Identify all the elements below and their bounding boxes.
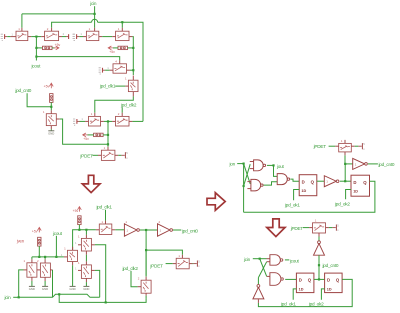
svg-text:D: D xyxy=(353,180,356,185)
wire K2 out to label xyxy=(173,229,181,231)
wire M4 bottom down xyxy=(344,152,346,156)
wire K6 input stub xyxy=(257,299,259,303)
svg-text:jpd_ok2: jpd_ok2 xyxy=(334,202,350,207)
svg-text:jcin: jcin xyxy=(4,295,12,300)
wire jon to node E xyxy=(237,163,243,165)
node H junction xyxy=(259,258,261,260)
svg-text:jout: jout xyxy=(276,164,285,169)
switch cell G4 xyxy=(116,31,129,40)
wire node C left to G8 xyxy=(60,119,108,144)
wire M4 to supply xyxy=(351,145,354,147)
wire junction to K2 xyxy=(146,229,157,231)
svg-text:+5v: +5v xyxy=(73,209,79,213)
node second-net/G4 junction xyxy=(121,21,123,23)
node F junction xyxy=(243,185,245,187)
nand gate N2 xyxy=(251,179,261,191)
node D junction xyxy=(50,106,52,108)
nand gate Q2 xyxy=(270,273,281,286)
wire node B down xyxy=(107,121,109,146)
wire FF2 clk to jpd_ok2 xyxy=(346,190,351,200)
pin stub H6 left xyxy=(78,269,81,271)
node right jumper junction xyxy=(132,47,134,49)
inverter K4 xyxy=(353,158,365,169)
node B junction xyxy=(107,120,109,122)
switch cell G1 xyxy=(16,31,28,40)
wire to K4 xyxy=(345,163,353,165)
svg-text:+5v: +5v xyxy=(109,50,115,54)
switch cell G9 (PDET cell) xyxy=(101,150,115,160)
wire K1 node down to PDET cell xyxy=(145,230,147,276)
wire J4 to node D xyxy=(50,102,52,110)
node A junction xyxy=(35,36,37,38)
crossover wire feedback to Q1 xyxy=(258,262,266,278)
wire jpd_clk1 to G5v xyxy=(115,85,125,87)
wire K4 out to label xyxy=(368,163,378,165)
wire B lower jcin net xyxy=(59,294,146,302)
inverter K6 (up) xyxy=(253,287,264,299)
switch cell H7 xyxy=(141,280,151,293)
svg-text:jpd_cnt0: jpd_cnt0 xyxy=(14,88,31,93)
supply arrow +5v left xyxy=(83,133,89,137)
wire FF3 Q to node I xyxy=(314,278,325,280)
wire G4 top pin xyxy=(121,22,123,28)
supply +5V flag xyxy=(121,154,124,156)
wire H3 bottom to ground xyxy=(31,277,33,281)
feedback rail left xyxy=(243,164,245,213)
wire X1 to G1 xyxy=(7,36,10,38)
pin stub Q2 in1 xyxy=(267,275,270,277)
wire H8 to supply xyxy=(189,263,192,265)
svg-text:jPDET: jPDET xyxy=(313,144,327,149)
flip-flop FF3 xyxy=(296,273,314,293)
supply +5V flag xyxy=(358,145,361,147)
wire H1 out to inverter K1 xyxy=(112,229,115,231)
ground GND5 xyxy=(42,285,48,287)
svg-text:+5v: +5v xyxy=(55,43,61,47)
pin stub H2 left xyxy=(78,244,81,246)
ground GND2 xyxy=(70,285,76,287)
ground GND4 xyxy=(29,285,35,287)
svg-text:GND: GND xyxy=(83,287,89,291)
svg-text:jcout: jcout xyxy=(31,63,42,68)
supply arrow +5v right xyxy=(52,47,55,49)
pin stub H5 in xyxy=(64,256,68,258)
wire G7 out to right rail xyxy=(129,120,132,122)
node I junction xyxy=(318,278,320,280)
node H7 down-rail junction xyxy=(105,301,107,303)
block arrow step3-to-step4 (down) xyxy=(267,219,285,237)
pin stub Q1 in2 xyxy=(267,261,270,263)
node rail/J5 junction xyxy=(78,229,80,231)
BL junction row wire xyxy=(32,256,64,258)
jumper J3 xyxy=(94,133,104,136)
wire K5 in from cnt0 node xyxy=(318,255,320,279)
pin stub G6 top xyxy=(94,113,96,117)
wire hop over jcin xyxy=(92,19,98,22)
wire jPDET to H8 xyxy=(166,263,173,265)
svg-text:jven: jven xyxy=(16,238,25,243)
port X5 xyxy=(76,119,78,124)
wire H2 right to down rail xyxy=(91,244,95,246)
inverter K1 xyxy=(124,224,136,236)
node row/jcout xyxy=(55,256,57,258)
wire A bottom jcin net xyxy=(19,294,100,297)
node C junction xyxy=(107,143,109,145)
wire port X3 to G3 xyxy=(79,36,83,38)
pin stub G1 top xyxy=(21,28,23,31)
wire J3 to node xyxy=(103,134,108,136)
svg-text:1D: 1D xyxy=(301,189,306,193)
wire node A down (jcout net) xyxy=(35,37,37,61)
node row/J6 xyxy=(38,256,40,258)
inverter K3 xyxy=(324,176,336,187)
wire top net to G1 xyxy=(22,13,95,15)
supply +5V flag xyxy=(332,227,335,229)
wire N2 out to N3 xyxy=(264,182,278,185)
pull-up jumper J4 xyxy=(50,94,53,103)
svg-text:GND: GND xyxy=(29,287,35,291)
wire jcin to H3 left pin xyxy=(13,296,19,298)
node jcout/wire3 junction xyxy=(35,56,37,58)
wire to jumper J1 xyxy=(36,47,42,49)
wire jPDET to M4 xyxy=(329,145,336,147)
nand gate N3 xyxy=(277,174,287,185)
wire G5v bottom to G6 top xyxy=(132,92,134,97)
node K4 in junction xyxy=(344,163,346,165)
switch cell G2 xyxy=(45,31,59,40)
svg-text:1D: 1D xyxy=(353,189,358,193)
svg-text:jon: jon xyxy=(229,161,236,166)
switch cell H4 xyxy=(40,263,50,277)
node jcin junction xyxy=(18,296,20,298)
svg-text:jpd_clk1: jpd_clk1 xyxy=(99,84,116,89)
wire H6 right to down-corner xyxy=(91,269,95,271)
wire node G down to N3 xyxy=(274,165,278,176)
svg-text:jpd_clk1: jpd_clk1 xyxy=(96,205,113,210)
svg-text:GND: GND xyxy=(48,131,54,135)
svg-text:jcout: jcout xyxy=(289,259,300,264)
svg-text:1D: 1D xyxy=(327,287,332,291)
pin stub H1 in xyxy=(96,229,99,231)
pin stub G7 in xyxy=(112,120,115,122)
wire second net G2-G4-right xyxy=(52,22,92,28)
svg-text:jPDET: jPDET xyxy=(79,153,93,158)
switch cell G6 xyxy=(89,116,101,126)
wire G3 to G4 xyxy=(99,36,102,38)
wire G4 out down right rail xyxy=(129,36,132,38)
pin stub M4 top xyxy=(344,140,346,144)
pin stub G3 top xyxy=(94,28,96,31)
svg-text:jPDET: jPDET xyxy=(149,264,163,269)
svg-text:jpd_clk2: jpd_clk2 xyxy=(122,266,139,271)
wire H7 bottom xyxy=(145,293,147,295)
switch cell G8 (cnt0 cell) xyxy=(46,114,56,126)
wire cnt0 tap up to K4 xyxy=(344,164,346,181)
block arrow step2-to-step3 (right) xyxy=(207,193,225,211)
crossover wire jon to N2 xyxy=(244,164,251,184)
BL rail wire xyxy=(73,230,96,251)
wire G2 out to port X2 xyxy=(59,36,62,38)
node jcin/top-wire junction xyxy=(94,13,96,15)
wire feedback up from K6 xyxy=(257,278,259,285)
pull-up jumper J6 xyxy=(38,237,41,246)
svg-text:+5v: +5v xyxy=(83,137,89,141)
wire node H to Q1 in xyxy=(260,258,267,260)
svg-text:jpd_cnt0: jpd_cnt0 xyxy=(322,263,339,268)
wire FF4 Q feedback loop xyxy=(258,279,352,306)
switch cell H3 xyxy=(27,263,37,277)
ground GND3 xyxy=(83,285,89,287)
port X2 xyxy=(68,34,70,39)
wire3 jcout to G5 top xyxy=(36,57,119,61)
wire jPDET to G9 xyxy=(92,154,98,156)
switch cell G5 xyxy=(113,64,127,73)
pull-up jumper J5 xyxy=(78,216,81,225)
wire H4 right down to wireA xyxy=(50,269,52,271)
wire G8 bottom to ground xyxy=(50,126,52,130)
node cnt0 tap junction xyxy=(344,180,346,182)
svg-text:jpd_ok2: jpd_ok2 xyxy=(308,302,324,307)
wire H2 top xyxy=(85,230,87,235)
node wireB tap xyxy=(58,293,60,295)
crossover wire jcin to Q2 xyxy=(260,259,267,277)
wire jpd_cnt0 to node D xyxy=(27,93,51,107)
node jumper row left junction xyxy=(35,47,37,49)
wire H4 top xyxy=(44,257,46,260)
supply arrow +5v up xyxy=(37,227,41,232)
svg-text:jpd_ok1: jpd_ok1 xyxy=(284,203,300,208)
node E junction xyxy=(243,163,245,165)
node rail/H2 junction xyxy=(85,229,87,231)
pin stub G2 top xyxy=(51,28,53,31)
port X4 xyxy=(102,68,104,73)
wire H5 bottom to ground xyxy=(72,262,74,266)
switch cell G3 xyxy=(86,31,98,40)
node jumper row junction xyxy=(107,134,109,136)
switch cell H1 xyxy=(99,224,112,235)
pin stub G8 right xyxy=(56,118,59,120)
pin stub G2 in xyxy=(41,36,44,38)
wire N1 out to node G xyxy=(267,164,274,166)
ground GND1 xyxy=(48,130,54,132)
wire jpd_clk1 to H1 top xyxy=(105,210,107,221)
svg-text:D: D xyxy=(299,278,302,283)
svg-text:jPDET: jPDET xyxy=(290,226,304,231)
node row/H4 xyxy=(44,256,46,258)
crossover wire feedback to N1 xyxy=(244,164,251,186)
pin stub G5v top xyxy=(132,76,134,81)
supply arrow +5v up xyxy=(78,207,82,212)
wire jpd_clk2 to H7 left xyxy=(131,271,138,287)
wire H6 bottom to ground xyxy=(85,278,87,282)
pull-up supply arrow +5v up xyxy=(49,83,53,88)
node jpd_cnt0 label tap xyxy=(318,264,320,266)
switch cell H6 xyxy=(81,265,91,279)
svg-text:jpd_clk2: jpd_clk2 xyxy=(120,102,137,107)
supply arrow +5v left xyxy=(108,46,114,50)
switch cell H8 (PDET cell) xyxy=(176,258,189,269)
svg-text:jcin: jcin xyxy=(243,257,251,262)
wire FF4 clk to jpd_ok2 xyxy=(321,289,324,300)
node K1/K2 junction xyxy=(145,229,147,231)
wire H7 top from clk2 node xyxy=(145,250,147,277)
wire H2 bottom to H6 top xyxy=(85,251,87,255)
svg-text:D: D xyxy=(302,179,305,184)
wire FF1 clk to jpd_ok1 xyxy=(294,190,300,201)
svg-text:jcin: jcin xyxy=(89,1,97,6)
inverter K2 xyxy=(158,224,170,236)
wire J2 to rail xyxy=(128,47,134,49)
svg-text:+5v: +5v xyxy=(44,85,50,89)
wire G9 to supply xyxy=(115,154,118,156)
svg-text:jpd_cnt0: jpd_cnt0 xyxy=(378,162,395,167)
jumper J1 xyxy=(43,46,53,49)
inverter K5 (up) xyxy=(314,244,325,256)
wire H3 top xyxy=(31,257,33,259)
wire FF3 clk to jpd_ok1 xyxy=(293,289,296,300)
wire jpd_clk2 to G7 top xyxy=(121,107,123,112)
jumper J2 xyxy=(118,46,128,49)
switch cell G5v (jpd_clk1 cell) xyxy=(128,80,138,91)
nand gate N1 xyxy=(254,160,264,171)
svg-text:D: D xyxy=(327,278,330,283)
wire G5 out to rail xyxy=(127,69,130,71)
svg-text:jcout: jcout xyxy=(52,231,63,236)
pin stubs N2 inputs xyxy=(247,181,251,183)
node clk2 junction xyxy=(145,249,147,251)
svg-text:1D: 1D xyxy=(299,287,304,291)
node G junction xyxy=(272,164,274,166)
node rail/G5 junction xyxy=(132,69,134,71)
switch cell P1 (PDET cell) xyxy=(313,223,326,233)
flip-flop FF2 xyxy=(351,175,370,196)
svg-text:GND: GND xyxy=(69,287,75,291)
svg-text:+5v: +5v xyxy=(32,229,38,233)
svg-text:jpd_ok1: jpd_ok1 xyxy=(280,302,296,307)
wire J6 down to row xyxy=(38,246,40,257)
svg-text:jpd_cnt0: jpd_cnt0 xyxy=(181,229,198,234)
block arrow step1-to-step2 (down) xyxy=(82,175,100,192)
wire jcin vertical xyxy=(94,6,96,28)
wire FF1 Q to buffer K3 xyxy=(317,180,325,182)
wire K3 to FF2 D xyxy=(340,180,351,182)
wire H5 top from BL rail xyxy=(72,247,74,251)
svg-text:GND: GND xyxy=(42,287,48,291)
switch cell G7 xyxy=(116,116,130,126)
nand gate Q1 xyxy=(270,255,281,266)
wire K1 to K2 xyxy=(140,229,146,231)
wire jcin to node H xyxy=(253,258,260,260)
pin stubs N1 inputs xyxy=(250,161,254,163)
port X3 xyxy=(76,34,78,39)
wire N3 out to FF1 D xyxy=(290,179,299,181)
pin stub G9 top xyxy=(107,147,109,150)
wire Q2 out to FF3 D xyxy=(285,278,296,280)
wire X4 to G5 xyxy=(105,69,110,71)
wire P1 to supply xyxy=(326,227,329,229)
wire FF2 Q feedback xyxy=(244,181,375,212)
wire J5 to rail xyxy=(78,225,80,230)
wire H4 bottom to ground xyxy=(44,277,46,281)
wire jcout down xyxy=(55,236,57,257)
wire to H8 top xyxy=(146,250,182,255)
switch cell H5 xyxy=(68,250,78,261)
wire P1 bottom to buffer K5 xyxy=(318,233,320,237)
wire H3-H4 link xyxy=(37,269,41,271)
flip-flop FF4 xyxy=(325,273,343,293)
switch cell M4 (PDET cell) xyxy=(339,143,352,152)
supply +5V flag xyxy=(193,263,196,265)
wire G6 out to node B xyxy=(101,120,104,122)
flip-flop FF1 xyxy=(299,175,317,196)
switch cell H2 xyxy=(81,238,91,251)
wire Q1 out to jcout xyxy=(285,259,289,261)
wire G1 out to node A xyxy=(28,36,31,38)
wire X5 to G6 xyxy=(80,120,86,122)
wire jPDET to P1 xyxy=(303,227,309,229)
port X1 input xyxy=(4,34,6,39)
